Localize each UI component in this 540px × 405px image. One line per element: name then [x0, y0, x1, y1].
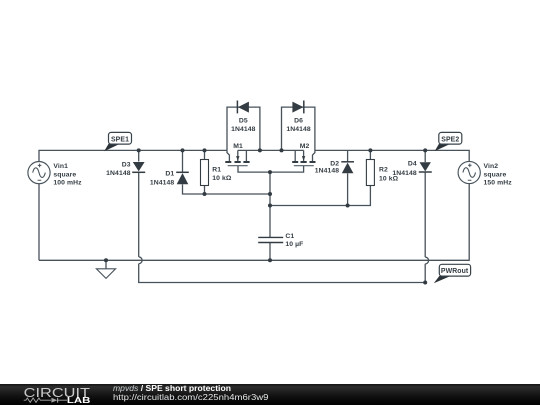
svg-text:M2: M2 — [300, 143, 310, 150]
svg-text:D2: D2 — [330, 160, 339, 167]
resistor R1 — [201, 160, 209, 186]
svg-text:1N4148: 1N4148 — [286, 126, 311, 133]
diode D4 — [419, 162, 432, 172]
junction D3 anode / SPE1 net — [137, 148, 141, 152]
junction D6 anode / mid net — [280, 148, 284, 152]
wire D4 top lead — [424, 150, 426, 162]
ground — [96, 269, 115, 279]
svg-text:SPE2: SPE2 — [441, 137, 459, 144]
resistor R2 — [366, 160, 374, 186]
wire D3 cathode down with hop over rail A, then PWRout rail B — [139, 172, 426, 283]
svg-text:D6: D6 — [294, 118, 303, 125]
junction D2 anode — [346, 204, 350, 208]
svg-text:100 mHz: 100 mHz — [53, 180, 82, 187]
svg-text:D4: D4 — [408, 161, 417, 168]
svg-text:1N4148: 1N4148 — [231, 126, 256, 133]
svg-text:C1: C1 — [285, 233, 294, 240]
junction R2 top / SPE2 net — [368, 148, 372, 152]
source Vin2 — [458, 161, 480, 183]
svg-text:SPE1: SPE1 — [111, 137, 129, 144]
svg-text:1N4148: 1N4148 — [106, 170, 131, 177]
wire ground stub — [105, 260, 107, 269]
junction R1 bottom — [203, 192, 207, 196]
svg-text:150 mHz: 150 mHz — [484, 180, 513, 187]
wire D2 leads — [347, 150, 349, 205]
junction D4 anode / SPE2 net — [423, 148, 427, 152]
wire D5 loop (M1 drain to mid net) — [227, 107, 260, 150]
wire ground rail A (Vin1 to Vin2 bottom) — [39, 184, 469, 261]
capacitor C1 — [258, 237, 283, 242]
wire SPE2 net rail (M2 drain to Vin2 top) — [315, 150, 469, 161]
junction D5 cathode / mid net — [258, 148, 262, 152]
wire Vin1 bottom lead — [38, 184, 40, 261]
svg-text:M1: M1 — [233, 143, 243, 150]
svg-text:http://circuitlab.com/c225nh4m: http://circuitlab.com/c225nh4m6r3w9 — [113, 392, 269, 402]
wire D4 cathode down with hop over rail A to PWRout node — [425, 172, 428, 283]
svg-text:1N4148: 1N4148 — [392, 170, 417, 177]
svg-text:1N4148: 1N4148 — [150, 179, 175, 186]
junction ground symbol — [104, 258, 108, 262]
wire mid net rail (M1 source/body to M2 body) — [238, 149, 304, 151]
junction R1 top / SPE1 net — [203, 148, 207, 152]
wire D2/R2 bottom line — [270, 186, 370, 206]
diode D2 — [341, 162, 354, 174]
svg-text:R2: R2 — [379, 167, 388, 174]
transistor M2 — [292, 150, 315, 165]
svg-text:PWRout: PWRout — [441, 268, 469, 275]
svg-text:LAB: LAB — [67, 396, 91, 405]
diode D3 — [132, 162, 145, 172]
wire top rail SPE1 net (Vin1 top to M1 drain) — [39, 150, 227, 161]
wire R2 top lead — [369, 150, 371, 159]
junction D4 cathode / PWRout — [423, 281, 427, 285]
diode D5 — [237, 101, 249, 114]
node SPE1 — [104, 132, 131, 151]
junction C1 bottom / ground net — [268, 258, 272, 262]
svg-text:D1: D1 — [165, 171, 174, 178]
footer logo wire-resistor-diode — [24, 398, 67, 403]
junction gate net / D1-R1 line — [268, 192, 272, 196]
svg-text:square: square — [53, 171, 76, 178]
svg-text:10 kΩ: 10 kΩ — [212, 175, 232, 182]
source Vin1 — [28, 162, 50, 184]
diode D1 — [176, 172, 189, 184]
wire gate node down to C1 top — [269, 172, 271, 237]
wire R1 leads — [204, 150, 206, 194]
svg-text:D3: D3 — [122, 162, 131, 169]
wire D3 top lead — [138, 150, 140, 161]
wire C1 bottom lead — [269, 243, 271, 261]
junction M1-M2 gates — [268, 170, 272, 174]
svg-text:R1: R1 — [212, 167, 221, 174]
wire D6 loop (mid net to M2 drain) — [282, 107, 315, 150]
svg-text:Vin2: Vin2 — [484, 163, 499, 170]
svg-text:square: square — [484, 171, 507, 178]
svg-text:D5: D5 — [239, 118, 248, 125]
node PWRout — [434, 264, 471, 283]
svg-text:Vin1: Vin1 — [53, 163, 68, 170]
junction gate net / D2-R2 line — [268, 204, 272, 208]
junction D1 cathode / SPE1 net — [181, 148, 185, 152]
wire D1 bottom to R1 bottom line — [183, 184, 271, 194]
transistor M1 — [225, 150, 249, 165]
wire D1 top lead — [182, 150, 184, 172]
svg-text:10 µF: 10 µF — [285, 241, 303, 248]
wire M1 gate to M2 gate link — [238, 166, 304, 172]
node SPE2 — [435, 132, 462, 151]
svg-text:1N4148: 1N4148 — [315, 168, 340, 175]
diode D6 — [292, 101, 303, 114]
